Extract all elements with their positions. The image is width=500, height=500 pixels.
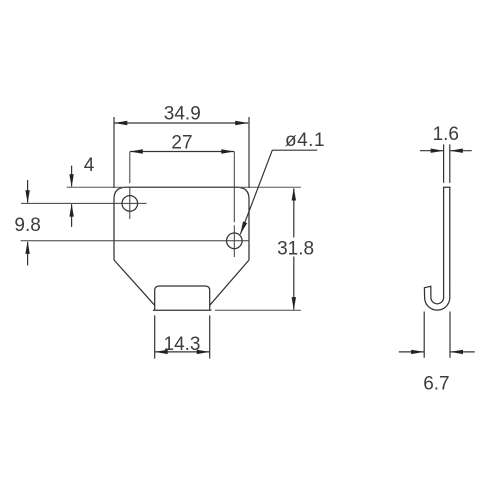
svg-text:9.8: 9.8 — [14, 215, 40, 236]
svg-text:4: 4 — [84, 155, 95, 176]
svg-text:1.6: 1.6 — [433, 124, 459, 145]
svg-text:27: 27 — [171, 132, 192, 153]
svg-text:6.7: 6.7 — [423, 373, 449, 394]
svg-text:34.9: 34.9 — [164, 103, 201, 124]
svg-text:14.3: 14.3 — [164, 334, 201, 355]
svg-text:31.8: 31.8 — [277, 238, 314, 259]
svg-text:ø4.1: ø4.1 — [285, 130, 325, 151]
